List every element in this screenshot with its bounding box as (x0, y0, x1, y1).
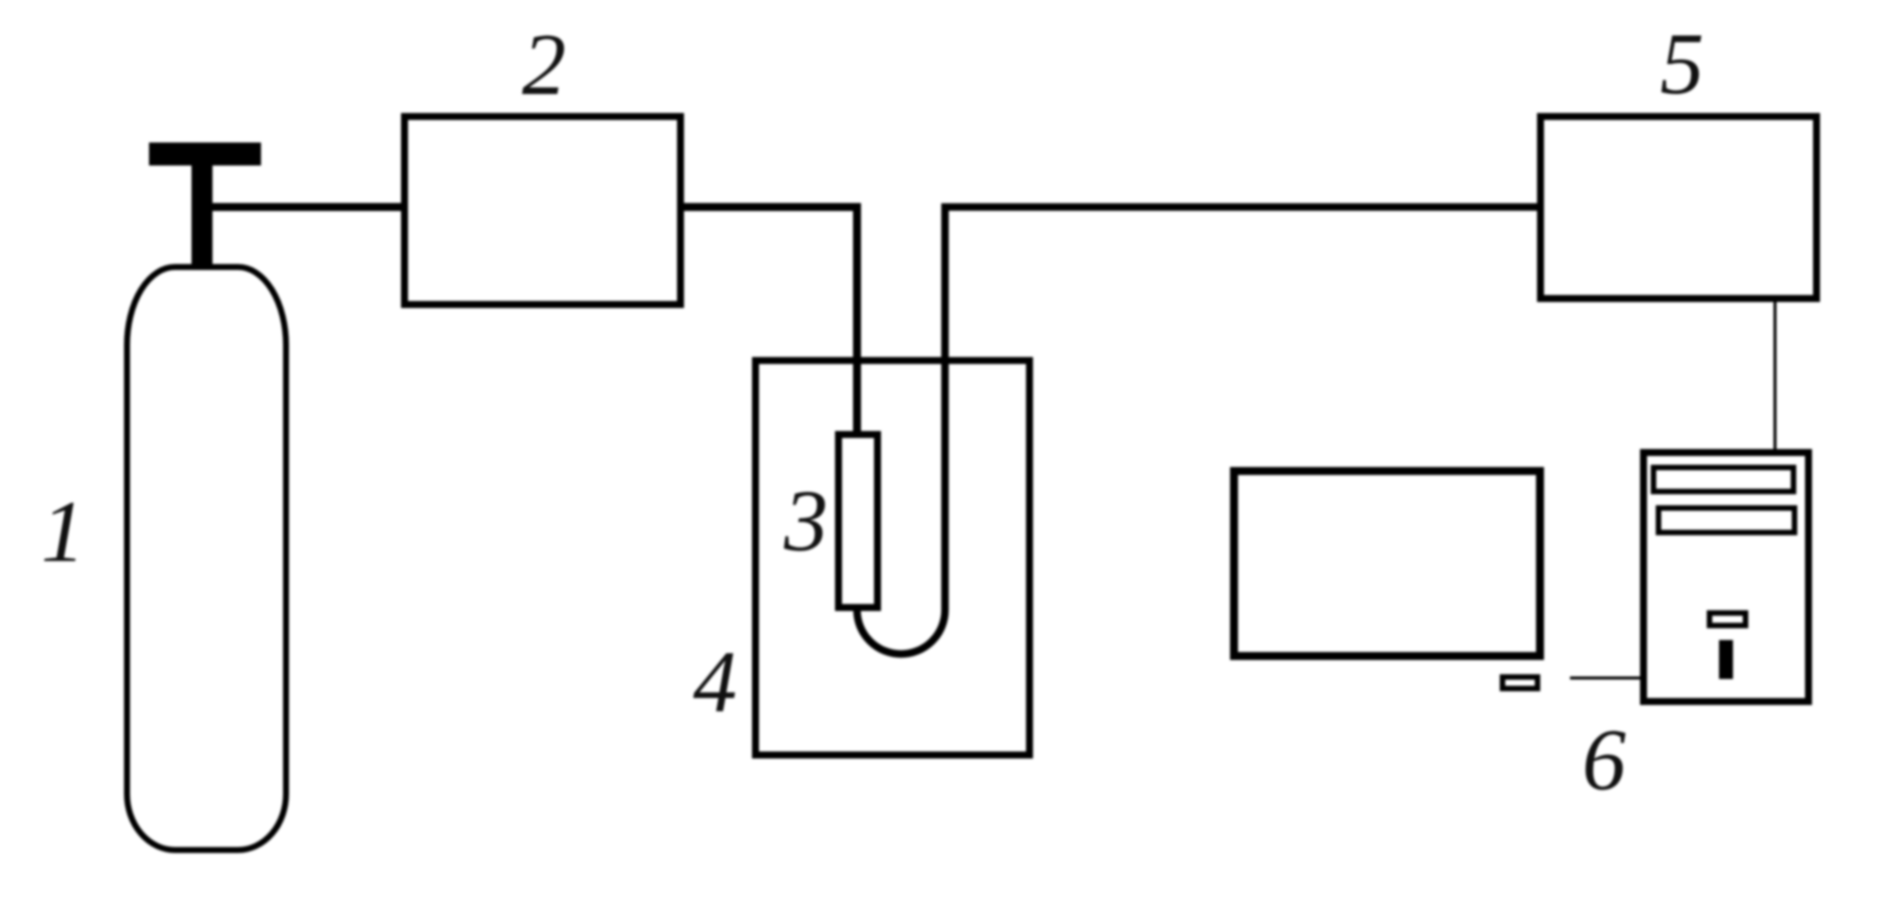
U-tube: left limb through tube 3, bottom bend, right limb up to wire to box 5 (857, 207, 1540, 654)
svg-text:6: 6 (1582, 712, 1626, 809)
sample tube 3 (white-filled rectangle over left limb) (839, 435, 878, 608)
thin cable: monitor to tower (1570, 677, 1643, 680)
svg-text:2: 2 (522, 17, 566, 114)
svg-text:4: 4 (693, 634, 737, 731)
tower power switch bar (1719, 640, 1733, 679)
box 4 (furnace enclosure) (756, 361, 1030, 756)
svg-text:3: 3 (783, 473, 828, 570)
gas cylinder valve stem (192, 160, 213, 270)
thin cable: box 5 to computer tower (1774, 302, 1777, 452)
computer monitor (part of 6) (1234, 471, 1540, 656)
wire: cylinder valve to box 2 (209, 203, 404, 211)
monitor button rectangle (1503, 677, 1538, 689)
box 2 (pressure regulator) (405, 117, 681, 305)
gas cylinder valve handle bar (149, 143, 261, 166)
tower drive bay slot 1 (1654, 468, 1794, 492)
box 5 (detector) (1541, 117, 1817, 299)
computer tower case (part of 6) (1644, 453, 1809, 702)
tower drive bay slot 2 (1659, 508, 1795, 533)
wire: box 2 to sample tube 3 (down into furnace) (681, 207, 857, 438)
svg-text:1: 1 (41, 484, 85, 581)
svg-text:5: 5 (1660, 16, 1704, 113)
tower floppy slot rectangle (1710, 613, 1746, 626)
gas cylinder body (component 1) (127, 267, 286, 850)
